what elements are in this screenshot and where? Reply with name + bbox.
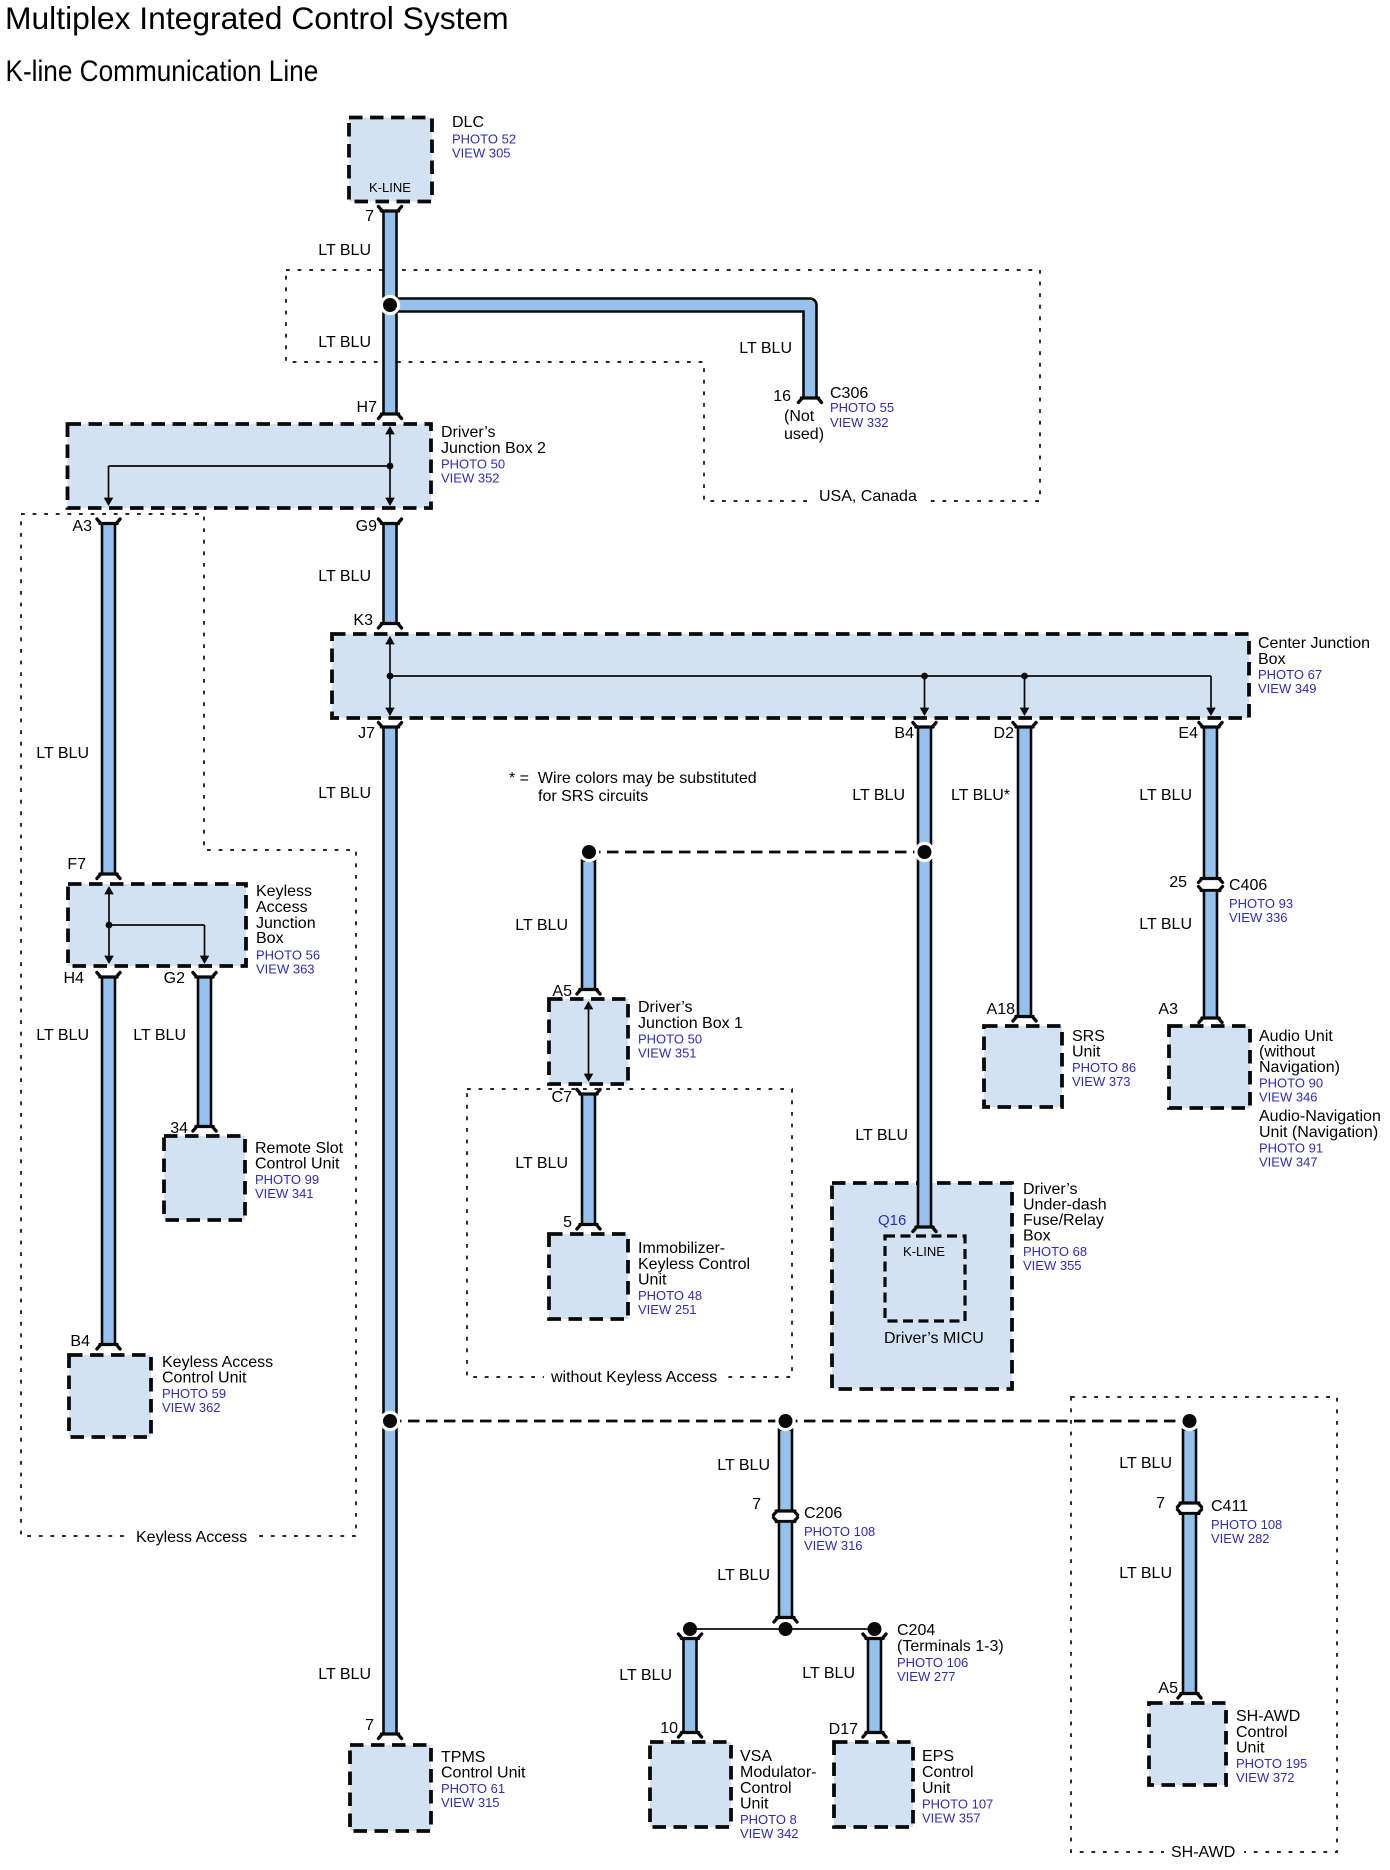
junction node C411 top	[1179, 1411, 1199, 1431]
svg-text:PHOTO 8: PHOTO 8	[740, 1812, 797, 1827]
labels VSA	[740, 1748, 816, 1841]
svg-text:A3: A3	[1158, 1001, 1178, 1018]
svg-text:PHOTO 108: PHOTO 108	[1211, 1517, 1282, 1532]
KAJB drop G2	[204, 925, 206, 961]
wire label LT BLU below node	[318, 334, 371, 351]
labels C306 not used	[784, 408, 824, 443]
note wire colors line2	[538, 788, 648, 805]
connector box DLC	[349, 118, 432, 202]
svg-text:34: 34	[170, 1120, 188, 1137]
svg-text:VIEW 351: VIEW 351	[638, 1046, 697, 1061]
svg-text:PHOTO 107: PHOTO 107	[922, 1797, 993, 1812]
label without Keyless Access	[550, 1369, 717, 1386]
wire G2 to 34	[193, 973, 216, 1132]
svg-text:Keyless Access: Keyless Access	[162, 1354, 273, 1371]
KAJB internal vertical	[108, 890, 110, 961]
svg-text:VIEW 372: VIEW 372	[1236, 1770, 1295, 1785]
CJB dot B4	[921, 673, 928, 680]
wire G9 to K3	[378, 519, 401, 628]
svg-text:A5: A5	[1158, 1680, 1178, 1697]
svg-text:Junction Box 1: Junction Box 1	[638, 1015, 743, 1032]
svg-text:C206: C206	[804, 1505, 842, 1522]
svg-text:VIEW 347: VIEW 347	[1259, 1155, 1318, 1170]
svg-text:G2: G2	[164, 970, 185, 987]
pin 7 DLC	[365, 208, 374, 225]
pin A5 DJB1	[552, 983, 572, 1000]
labels C204	[897, 1622, 1004, 1684]
inline connector C206	[773, 1511, 797, 1522]
svg-text:Control Unit: Control Unit	[441, 1765, 526, 1782]
inner box K-LINE MICU	[885, 1236, 965, 1321]
labels DLC	[452, 114, 516, 161]
svg-text:LT BLU: LT BLU	[855, 1127, 908, 1144]
svg-text:PHOTO 61: PHOTO 61	[441, 1781, 505, 1796]
CJB dot J7	[387, 673, 394, 680]
svg-text:VIEW 357: VIEW 357	[922, 1811, 981, 1826]
svg-text:VIEW 349: VIEW 349	[1258, 681, 1317, 696]
wire label LT BLU C306	[739, 340, 792, 357]
pin 7 TPMS	[365, 1717, 374, 1734]
svg-text:D2: D2	[994, 725, 1015, 742]
svg-text:Driver’s: Driver’s	[1023, 1181, 1078, 1198]
svg-text:LT BLU: LT BLU	[515, 917, 568, 934]
svg-text:LT BLU: LT BLU	[318, 568, 371, 585]
wire junction to C411	[1183, 1430, 1196, 1504]
svg-text:LT BLU: LT BLU	[36, 1027, 89, 1044]
svg-text:PHOTO 108: PHOTO 108	[804, 1524, 875, 1539]
svg-text:B4: B4	[894, 725, 914, 742]
svg-text:7: 7	[365, 1717, 374, 1734]
wire label LT BLU below C406	[1139, 916, 1192, 933]
labels C411	[1211, 1498, 1282, 1546]
svg-text:J7: J7	[358, 725, 375, 742]
wire label LT BLU G2	[133, 1027, 186, 1044]
svg-text:Control: Control	[922, 1764, 974, 1781]
DJB2 internal horizontal	[109, 465, 391, 467]
DJB2 junction dot	[387, 463, 394, 470]
pin G2	[164, 970, 185, 987]
svg-text:PHOTO 56: PHOTO 56	[256, 948, 320, 963]
svg-text:PHOTO 50: PHOTO 50	[441, 457, 505, 472]
svg-text:VIEW 341: VIEW 341	[255, 1186, 314, 1201]
box Remote Slot Control Unit	[164, 1136, 245, 1220]
labels EPS	[922, 1748, 993, 1826]
svg-text:7: 7	[752, 1496, 761, 1513]
wire E4 to C406	[1199, 723, 1222, 879]
wire label LT BLU H4	[36, 1027, 89, 1044]
pin 5 immobilizer	[563, 1214, 572, 1231]
svg-text:Driver’s: Driver’s	[441, 424, 496, 441]
svg-text:LT BLU: LT BLU	[717, 1567, 770, 1584]
box Keyless Access Junction Box	[68, 884, 246, 966]
box Center Junction Box	[332, 634, 1249, 718]
wire label LT BLU Q16	[855, 1127, 908, 1144]
box Drivers Under-dash Fuse Relay Box	[832, 1183, 1012, 1389]
svg-text:Box: Box	[1023, 1228, 1051, 1245]
labels Fuse Relay Box	[1023, 1181, 1107, 1273]
svg-text:LT BLU: LT BLU	[1119, 1455, 1172, 1472]
pin A18	[987, 1001, 1016, 1018]
pin 16 C306	[773, 388, 791, 405]
box EPS Control Unit	[834, 1742, 913, 1827]
svg-text:Fuse/Relay: Fuse/Relay	[1023, 1212, 1104, 1229]
svg-text:PHOTO 195: PHOTO 195	[1236, 1756, 1307, 1771]
label K-LINE MICU	[903, 1244, 945, 1259]
svg-text:PHOTO 52: PHOTO 52	[452, 132, 516, 147]
box Keyless Access Control Unit	[69, 1355, 151, 1437]
wire junction to A5	[577, 861, 600, 995]
svg-text:Unit: Unit	[740, 1796, 769, 1813]
svg-text:SRS: SRS	[1072, 1028, 1105, 1045]
box Drivers Junction Box 1	[549, 999, 628, 1084]
svg-text:Immobilizer-: Immobilizer-	[638, 1240, 725, 1257]
CJB arrow E4	[1206, 708, 1216, 716]
pin D17	[829, 1721, 858, 1738]
wire C7 to 5	[577, 1090, 600, 1230]
wire B4 to Q16	[913, 723, 936, 1232]
DJB1 internal vertical	[588, 1005, 590, 1078]
CJB arrow down	[385, 708, 395, 716]
svg-text:A5: A5	[552, 983, 572, 1000]
svg-text:LT BLU: LT BLU	[852, 787, 905, 804]
svg-text:VIEW 336: VIEW 336	[1229, 910, 1288, 925]
DJB2 internal left vertical	[108, 466, 110, 501]
thin line VSA-EPS junction	[690, 1628, 875, 1630]
KAJB internal horizontal	[109, 924, 205, 926]
svg-text:VIEW 315: VIEW 315	[441, 1795, 500, 1810]
wire junction to VSA 10	[678, 1634, 701, 1737]
svg-text:E4: E4	[1178, 725, 1198, 742]
pin A3 DJB2	[72, 518, 92, 535]
KAJB arrow up	[104, 886, 114, 894]
title	[5, 0, 509, 36]
CJB arrow D2	[1020, 708, 1030, 716]
svg-text:(Terminals 1-3): (Terminals 1-3)	[897, 1638, 1004, 1655]
wire label LT BLU VSA	[619, 1667, 672, 1684]
labels Remote Slot Control Unit	[255, 1140, 344, 1201]
svg-text:LT BLU: LT BLU	[1119, 1565, 1172, 1582]
wire J7 to TPMS	[378, 723, 401, 1739]
svg-text:H7: H7	[357, 399, 378, 416]
label Q16	[878, 1212, 906, 1229]
svg-text:Keyless Access: Keyless Access	[136, 1529, 247, 1546]
svg-text:Under-dash: Under-dash	[1023, 1197, 1107, 1214]
box Audio Unit	[1169, 1026, 1250, 1108]
labels Drivers Junction Box 1	[638, 999, 743, 1061]
KAJB arrow G2	[200, 956, 210, 964]
svg-text:PHOTO 99: PHOTO 99	[255, 1172, 319, 1187]
svg-text:PHOTO 59: PHOTO 59	[162, 1386, 226, 1401]
labels C206	[804, 1505, 875, 1553]
wire label LT BLU G9K3	[318, 568, 371, 585]
pin 10 VSA	[660, 1720, 678, 1737]
labels C306	[830, 385, 894, 430]
svg-text:Unit: Unit	[1072, 1044, 1101, 1061]
svg-text:LT BLU: LT BLU	[318, 1666, 371, 1683]
inline connector C406	[1198, 879, 1222, 891]
svg-text:LT BLU: LT BLU	[36, 745, 89, 762]
label K-LINE DLC	[369, 180, 411, 195]
svg-text:K-line Communication Line: K-line Communication Line	[6, 54, 319, 87]
CJB drop D2	[1024, 676, 1026, 712]
svg-text:LT BLU: LT BLU	[1139, 787, 1192, 804]
pin H4	[64, 970, 85, 987]
box SRS Unit	[984, 1026, 1062, 1107]
svg-text:Navigation): Navigation)	[1259, 1059, 1340, 1076]
wire C406 to A3 audio	[1199, 891, 1222, 1023]
junction node DLC branch	[380, 295, 400, 315]
svg-text:Modulator-: Modulator-	[740, 1764, 816, 1781]
svg-text:VIEW 373: VIEW 373	[1072, 1074, 1131, 1089]
svg-text:VIEW 305: VIEW 305	[452, 146, 511, 161]
junction node B4 bus	[914, 842, 934, 862]
svg-text:TPMS: TPMS	[441, 1749, 485, 1766]
wire label LT BLU C7	[515, 1155, 568, 1172]
label USA Canada	[819, 488, 917, 505]
pin C7	[552, 1089, 573, 1106]
wire label LT BLU A5	[515, 917, 568, 934]
labels Keyless Access Control Unit	[162, 1354, 273, 1415]
svg-text:Box: Box	[1258, 651, 1286, 668]
junction node VSA	[683, 1622, 697, 1636]
svg-text:VIEW 346: VIEW 346	[1259, 1090, 1318, 1105]
svg-text:Center Junction: Center Junction	[1258, 635, 1370, 652]
svg-text:LT BLU: LT BLU	[133, 1027, 186, 1044]
pin K3	[353, 612, 373, 629]
wire branch to C306	[390, 305, 822, 403]
svg-text:(without: (without	[1259, 1044, 1316, 1061]
labels Center Junction Box	[1258, 635, 1370, 696]
CJB arrow B4	[920, 708, 930, 716]
wire label LT BLU D2	[951, 787, 1010, 804]
svg-text:B4: B4	[70, 1333, 90, 1350]
svg-text:VIEW 362: VIEW 362	[162, 1400, 221, 1415]
junction node C206 top	[775, 1411, 795, 1431]
svg-text:without Keyless Access: without Keyless Access	[550, 1369, 717, 1386]
pin 34 remote slot	[170, 1120, 188, 1137]
wire label LT BLU EPS	[802, 1665, 855, 1682]
svg-text:Control Unit: Control Unit	[162, 1370, 247, 1387]
svg-text:Q16: Q16	[878, 1212, 906, 1229]
svg-text:LT BLU: LT BLU	[717, 1457, 770, 1474]
svg-text:Keyless Control: Keyless Control	[638, 1256, 750, 1273]
svg-text:PHOTO 67: PHOTO 67	[1258, 667, 1322, 682]
svg-text:VIEW 282: VIEW 282	[1211, 1531, 1270, 1546]
pin J7	[358, 725, 375, 742]
CJB internal vertical	[389, 640, 391, 712]
svg-text:VIEW 363: VIEW 363	[256, 962, 315, 977]
svg-text:Unit: Unit	[922, 1780, 951, 1797]
svg-text:K-LINE: K-LINE	[903, 1244, 945, 1259]
pin E4	[1178, 725, 1198, 742]
box TPMS Control Unit	[350, 1745, 431, 1831]
DJB2 internal vertical	[389, 430, 391, 501]
wire label LT BLU E4	[1139, 787, 1192, 804]
svg-text:Keyless: Keyless	[256, 883, 312, 900]
svg-text:VIEW 332: VIEW 332	[830, 415, 889, 430]
dashed bus net K-line low	[390, 1420, 1190, 1423]
junction node J7 bus	[380, 1411, 400, 1431]
wire C411 to A5 SH-AWD	[1178, 1514, 1201, 1699]
region SH-AWD outline	[1071, 1397, 1337, 1852]
svg-text:Box: Box	[256, 930, 284, 947]
svg-text:DLC: DLC	[452, 114, 484, 131]
svg-text:Control Unit: Control Unit	[255, 1156, 340, 1173]
DJB2 arrow down	[385, 498, 395, 506]
svg-text:Access: Access	[256, 899, 308, 916]
svg-text:PHOTO 93: PHOTO 93	[1229, 896, 1293, 911]
svg-text:PHOTO 86: PHOTO 86	[1072, 1060, 1136, 1075]
svg-text:PHOTO 68: PHOTO 68	[1023, 1244, 1087, 1259]
wire label LT BLU A3F7	[36, 745, 89, 762]
pin 25 C406	[1169, 874, 1187, 891]
wire H4 to B4 keyless	[97, 973, 120, 1350]
svg-text:PHOTO 106: PHOTO 106	[897, 1655, 968, 1670]
svg-text:5: 5	[563, 1214, 572, 1231]
labels Keyless Access Junction Box	[256, 883, 320, 977]
wire label LT BLU C411 lower	[1119, 1565, 1172, 1582]
svg-text:Unit: Unit	[1236, 1740, 1265, 1757]
svg-text:LT BLU: LT BLU	[318, 242, 371, 259]
labels SH-AWD Control Unit	[1236, 1708, 1307, 1785]
label Keyless Access	[136, 1529, 247, 1546]
svg-text:C406: C406	[1229, 877, 1267, 894]
svg-text:Control: Control	[1236, 1724, 1288, 1741]
svg-text:Control: Control	[740, 1780, 792, 1797]
svg-text:LT BLU*: LT BLU*	[951, 787, 1010, 804]
svg-text:10: 10	[660, 1720, 678, 1737]
label SH-AWD	[1171, 1844, 1235, 1861]
svg-text:Driver’s MICU: Driver’s MICU	[884, 1330, 984, 1347]
DJB2 arrow down left	[104, 498, 114, 506]
pin A5 SHAWD	[1158, 1680, 1178, 1697]
DJB1 arrow up	[584, 1001, 594, 1009]
dashed bus net K-line mid	[589, 851, 925, 854]
labels SRS Unit	[1072, 1028, 1136, 1089]
svg-text:Driver’s: Driver’s	[638, 999, 693, 1016]
pin F7	[67, 856, 86, 873]
KAJB junction dot	[106, 922, 113, 929]
pin B4 CJB	[894, 725, 914, 742]
svg-text:LT BLU: LT BLU	[619, 1667, 672, 1684]
junction node C204	[868, 1622, 882, 1636]
svg-text:SH-AWD: SH-AWD	[1236, 1708, 1300, 1725]
label Drivers MICU	[884, 1330, 984, 1347]
svg-text:LT BLU: LT BLU	[1139, 916, 1192, 933]
svg-text:7: 7	[1156, 1495, 1165, 1512]
labels Drivers Junction Box 2	[441, 424, 546, 486]
svg-text:VIEW 355: VIEW 355	[1023, 1258, 1082, 1273]
labels TPMS	[441, 1749, 526, 1810]
region without Keyless Access outline	[467, 1089, 792, 1377]
svg-text:used): used)	[784, 426, 824, 443]
svg-text:LT BLU: LT BLU	[515, 1155, 568, 1172]
svg-text:PHOTO 91: PHOTO 91	[1259, 1141, 1323, 1156]
svg-text:VIEW 251: VIEW 251	[638, 1302, 697, 1317]
KAJB arrow down	[104, 956, 114, 964]
svg-text:H4: H4	[64, 970, 85, 987]
label plates	[130, 489, 1244, 1860]
wire junction to C206	[779, 1430, 792, 1512]
pin A3 audio	[1158, 1001, 1178, 1018]
wire D2 to A18	[1013, 723, 1036, 1022]
box Immobilizer-Keyless Control Unit	[549, 1234, 628, 1319]
pin H7	[357, 399, 378, 416]
svg-text:A18: A18	[987, 1001, 1016, 1018]
pin B4 KACU	[70, 1333, 90, 1350]
wire label LT BLU C411 upper	[1119, 1455, 1172, 1472]
svg-text:VIEW 342: VIEW 342	[740, 1826, 799, 1841]
CJB drop B4	[924, 676, 926, 712]
box VSA Modulator Control Unit	[650, 1742, 731, 1827]
wire label LT BLU C206 upper	[717, 1457, 770, 1474]
svg-text:F7: F7	[67, 856, 86, 873]
wire label LT BLU C206 lower	[717, 1567, 770, 1584]
subtitle	[6, 54, 319, 87]
svg-text:PHOTO 55: PHOTO 55	[830, 400, 894, 415]
region Keyless Access outline	[21, 514, 356, 1536]
svg-text:C204: C204	[897, 1622, 935, 1639]
labels C406	[1229, 877, 1293, 925]
svg-text:25: 25	[1169, 874, 1187, 891]
svg-text:Audio Unit: Audio Unit	[1259, 1028, 1333, 1045]
svg-text:LT BLU: LT BLU	[318, 334, 371, 351]
CJB internal horizontal	[390, 675, 1211, 677]
svg-text:Unit (Navigation): Unit (Navigation)	[1259, 1124, 1378, 1141]
box SH-AWD Control Unit	[1149, 1703, 1226, 1785]
svg-text:PHOTO 48: PHOTO 48	[638, 1288, 702, 1303]
svg-text:D17: D17	[829, 1721, 858, 1738]
wire C206 to junction	[774, 1522, 797, 1623]
wire label LT BLU J7	[318, 785, 371, 802]
wire label LT BLU TPMS	[318, 1666, 371, 1683]
box Drivers Junction Box 2	[68, 424, 432, 508]
svg-text:LT BLU: LT BLU	[318, 785, 371, 802]
svg-text:LT BLU: LT BLU	[802, 1665, 855, 1682]
labels Immobilizer	[638, 1240, 750, 1317]
svg-text:* = Wire colors may be substi: * = Wire colors may be substituted	[509, 770, 757, 787]
note wire colors line1	[509, 770, 757, 787]
CJB arrow up	[385, 636, 395, 644]
svg-text:7: 7	[365, 208, 374, 225]
wire C204 to D17	[863, 1634, 886, 1737]
junction node C206 bottom	[779, 1622, 793, 1636]
wire A3 to F7	[97, 519, 120, 879]
svg-text:VIEW 316: VIEW 316	[804, 1538, 863, 1553]
svg-text:PHOTO 90: PHOTO 90	[1259, 1076, 1323, 1091]
svg-text:LT BLU: LT BLU	[739, 340, 792, 357]
wire label LT BLU DLC	[318, 242, 371, 259]
svg-text:USA, Canada: USA, Canada	[819, 488, 917, 505]
DJB1 arrow down	[584, 1074, 594, 1082]
svg-text:K-LINE: K-LINE	[369, 180, 411, 195]
svg-text:VIEW 277: VIEW 277	[897, 1669, 956, 1684]
junction node A5 drop	[579, 842, 599, 862]
svg-text:C411: C411	[1211, 1498, 1248, 1515]
pin 7 C206	[752, 1496, 761, 1513]
svg-text:(Not: (Not	[784, 408, 815, 425]
svg-text:K3: K3	[353, 612, 373, 629]
wire DLC to junction H7	[378, 207, 401, 419]
CJB dot D2	[1021, 673, 1028, 680]
svg-text:EPS: EPS	[922, 1748, 954, 1765]
svg-text:Audio-Navigation: Audio-Navigation	[1259, 1108, 1381, 1125]
pin D2	[994, 725, 1015, 742]
svg-text:Remote Slot: Remote Slot	[255, 1140, 344, 1157]
labels Audio Unit	[1259, 1028, 1381, 1170]
pin 7 C411	[1156, 1495, 1165, 1512]
svg-text:Multiplex Integrated Control S: Multiplex Integrated Control System	[5, 0, 509, 36]
